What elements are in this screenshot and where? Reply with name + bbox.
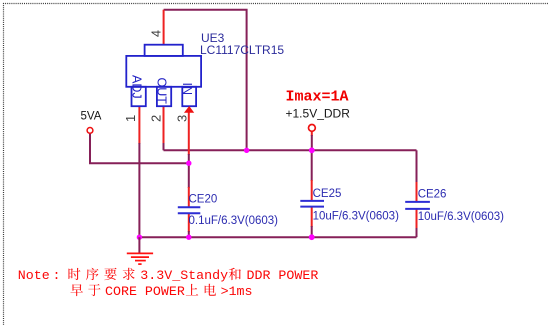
svg-text:Note: Note <box>18 268 50 283</box>
node junction ground / bottom bus <box>137 235 142 240</box>
node junction IN-5VA <box>186 161 191 166</box>
node junction CE25 / bottom bus <box>309 234 315 240</box>
ground <box>127 237 153 264</box>
terminal +1.5V_DDR <box>309 125 316 132</box>
wire CE25 branch <box>311 150 313 181</box>
wire IN pin drop <box>188 112 190 155</box>
capacitor CE20 <box>178 207 201 213</box>
wire ADJ pin drop to ground <box>138 106 140 144</box>
wire CE20 to bottom bus <box>188 231 190 237</box>
svg-text:5VA: 5VA <box>81 111 102 123</box>
svg-text:LC1117CLTR15: LC1117CLTR15 <box>200 43 284 57</box>
page border left <box>3 3 5 325</box>
svg-text:CE20: CE20 <box>189 194 218 206</box>
wire pin4 top loop <box>164 10 247 151</box>
wire +1.5V_DDR terminal stub <box>311 132 313 137</box>
terminal 5VA <box>87 127 93 133</box>
node junction +1.5V_DDR / upper bus <box>309 147 315 153</box>
svg-text:2: 2 <box>149 115 164 122</box>
svg-text:10uF/6.3V(0603): 10uF/6.3V(0603) <box>313 210 399 222</box>
wire CE20 top stub <box>188 187 190 207</box>
svg-text:OUT: OUT <box>155 78 169 105</box>
svg-text:3: 3 <box>175 115 190 122</box>
regulator UE3 body <box>126 45 201 107</box>
svg-text:3.3V_Standy: 3.3V_Standy <box>140 268 228 283</box>
svg-text:10uF/6.3V(0603): 10uF/6.3V(0603) <box>418 211 504 223</box>
svg-text:>1ms: >1ms <box>221 284 253 299</box>
svg-text:4: 4 <box>150 30 164 37</box>
capacitor CE26 <box>405 202 430 209</box>
note text line 1 <box>18 268 319 283</box>
node junction CE20 / bottom bus <box>186 235 191 240</box>
node junction pin4 loop / upper bus <box>244 148 249 153</box>
wire OUT pin drop <box>163 106 165 144</box>
page border top <box>3 3 548 5</box>
svg-text:Imax=1A: Imax=1A <box>286 89 349 106</box>
svg-text:CE26: CE26 <box>418 189 447 201</box>
wire CE20 bottom stub <box>188 214 190 232</box>
svg-text:DDR POWER: DDR POWER <box>247 268 319 283</box>
svg-text:ADJ: ADJ <box>130 75 144 99</box>
svg-text:0.1uF/6.3V(0603): 0.1uF/6.3V(0603) <box>189 215 279 227</box>
wire CE26 right drop <box>416 150 418 183</box>
pin 3 IN arrow <box>184 106 194 113</box>
svg-text:CE25: CE25 <box>313 188 342 200</box>
wire upper bus +1.5V_DDR <box>164 149 417 151</box>
svg-text:CORE POWER: CORE POWER <box>105 284 185 299</box>
wire bottom bus GND <box>139 236 416 238</box>
svg-text:IN: IN <box>180 83 194 96</box>
wire pin4 red stub <box>163 10 165 46</box>
svg-text::: : <box>53 268 61 283</box>
capacitor CE25 <box>300 201 324 207</box>
wire 5VA feed <box>90 134 189 164</box>
svg-text:+1.5V_DDR: +1.5V_DDR <box>286 107 351 121</box>
svg-text:1: 1 <box>123 115 138 122</box>
note text line 2 <box>71 284 217 296</box>
